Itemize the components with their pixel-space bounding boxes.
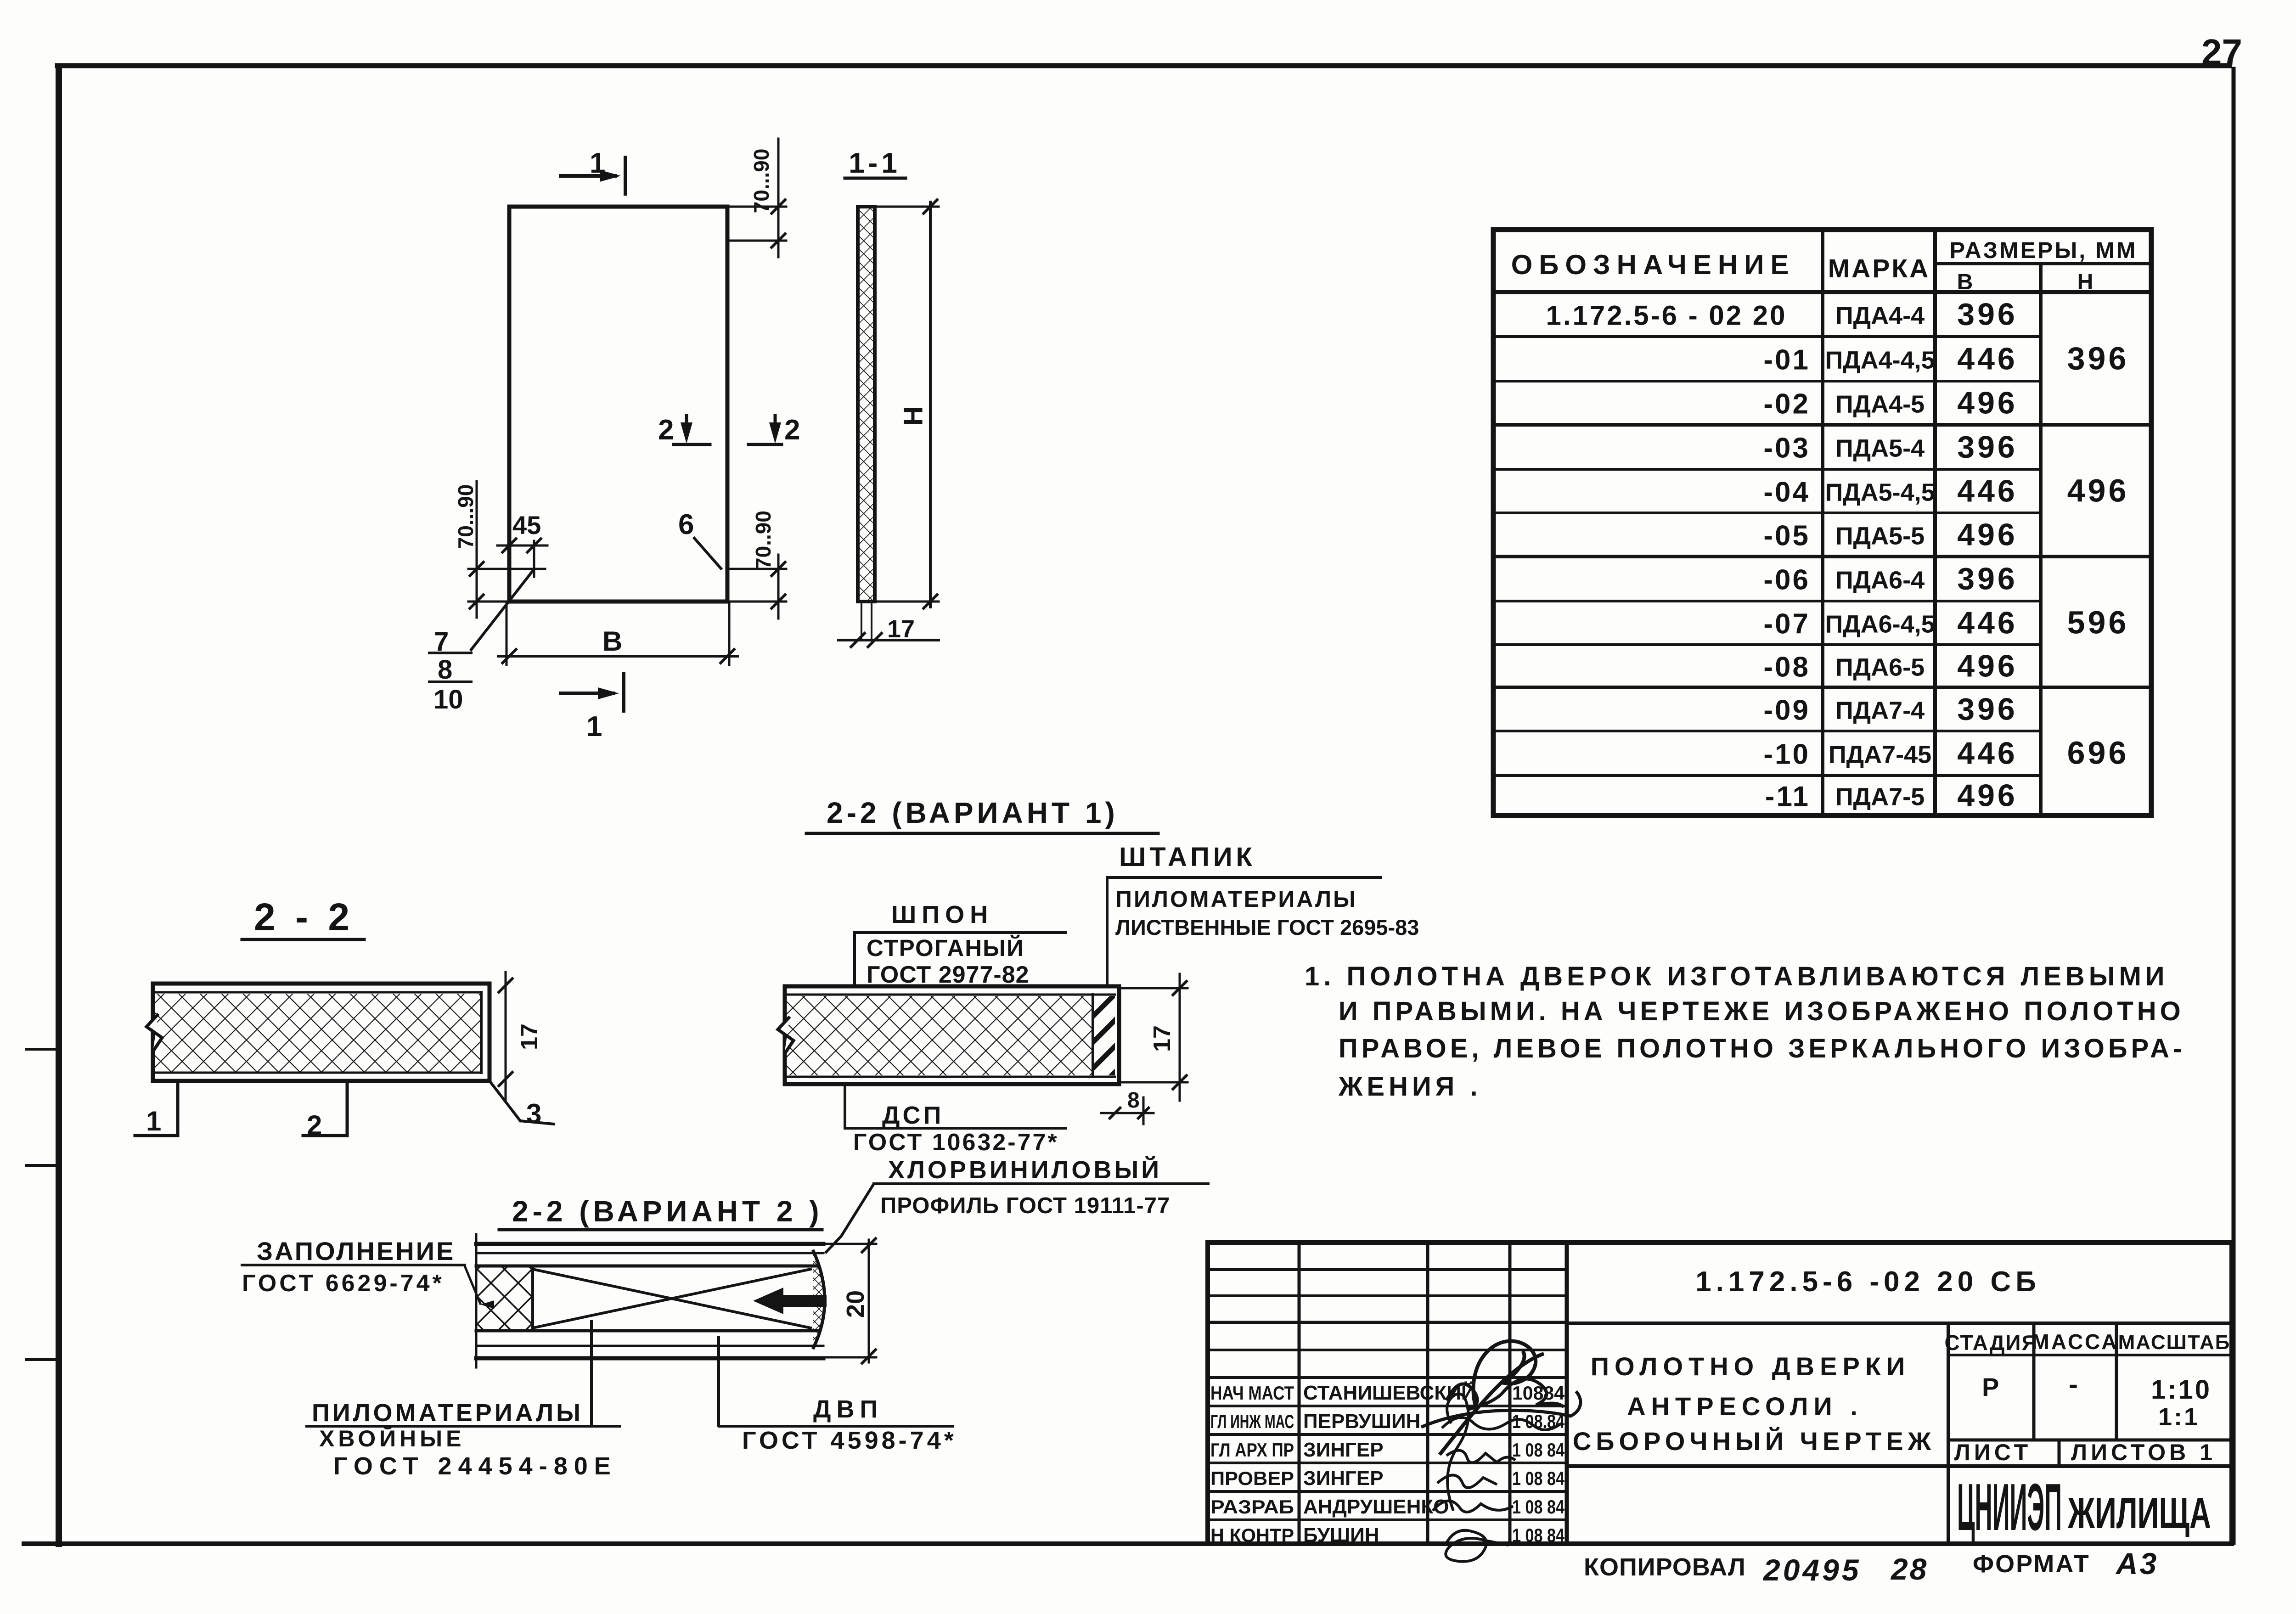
svg-text:ЖИЛИЩА: ЖИЛИЩА: [2067, 1489, 2211, 1538]
section 1-1 strip: [858, 207, 875, 602]
svg-text:НАЧ МАСТ: НАЧ МАСТ: [1210, 1382, 1294, 1404]
svg-text:70..90: 70..90: [751, 511, 775, 569]
svg-text:ШТАПИК: ШТАПИК: [1119, 842, 1256, 872]
svg-text:446: 446: [1957, 342, 2017, 377]
tb values bottom: [1948, 1439, 2232, 1442]
tb vertical main divider: [1565, 1243, 1569, 1544]
svg-text:-07: -07: [1763, 608, 1810, 640]
svg-text:ПИЛОМАТЕРИАЛЫ: ПИЛОМАТЕРИАЛЫ: [312, 1399, 583, 1427]
svg-text:ПДА6-4: ПДА6-4: [1835, 567, 1925, 594]
svg-text:1: 1: [146, 1106, 161, 1136]
svg-text:17: 17: [1149, 1025, 1176, 1052]
svg-text:1 08 84: 1 08 84: [1512, 1496, 1565, 1518]
bar 2-2 inner bottom line: [153, 1072, 481, 1074]
variant1 inner bottom line: [785, 1076, 1115, 1078]
variant2 fill block hatch: [476, 1266, 533, 1331]
svg-text:1 08 84: 1 08 84: [1512, 1524, 1565, 1546]
svg-text:10884: 10884: [1512, 1382, 1565, 1404]
svg-text:РАЗРАБ: РАЗРАБ: [1210, 1496, 1294, 1518]
tb doc cell bottom: [1567, 1322, 2232, 1325]
svg-text:ГОСТ 10632-77*: ГОСТ 10632-77*: [853, 1129, 1059, 1156]
svg-text:ПДА7-4: ПДА7-4: [1835, 697, 1925, 725]
tb left row line: [1208, 1294, 1567, 1297]
variant1 inner top line: [785, 994, 1115, 996]
svg-text:ПЕРВУШИН: ПЕРВУШИН: [1303, 1410, 1420, 1433]
svg-text:28: 28: [1890, 1552, 1928, 1586]
svg-text:10: 10: [433, 685, 463, 714]
svg-text:-02: -02: [1763, 388, 1810, 420]
svg-text:В: В: [1957, 270, 1973, 294]
tb signature row line: [1208, 1462, 1567, 1464]
title block outer: [1208, 1243, 2232, 1544]
fold tick 1: [26, 1048, 57, 1051]
svg-text:-10: -10: [1763, 739, 1810, 770]
svg-text:496: 496: [1957, 386, 2017, 421]
svg-text:ПДА7-45: ПДА7-45: [1829, 741, 1931, 769]
tb header underline: [1948, 1354, 2232, 1356]
tb left row line: [1208, 1268, 1567, 1271]
svg-text:596: 596: [2067, 605, 2129, 641]
svg-text:А3: А3: [2115, 1547, 2158, 1580]
svg-text:ГОСТ 24454-80Е: ГОСТ 24454-80Е: [333, 1452, 617, 1480]
svg-text:2: 2: [658, 414, 674, 446]
svg-text:ХЛОРВИНИЛОВЫЙ: ХЛОРВИНИЛОВЫЙ: [888, 1156, 1162, 1184]
svg-text:ШПОН: ШПОН: [891, 901, 993, 928]
svg-text:496: 496: [1957, 517, 2017, 552]
leader to hinge: [471, 570, 533, 650]
variant2 top skin lines: [476, 1242, 823, 1246]
signature scribbles: [1440, 1354, 1544, 1455]
svg-text:МАСШТАБ: МАСШТАБ: [2118, 1331, 2231, 1354]
svg-text:1.172.5-6 -02 20 СБ: 1.172.5-6 -02 20 СБ: [1695, 1266, 2041, 1298]
page frame bottom border: [24, 1541, 2232, 1546]
strip lower extension: [861, 602, 862, 639]
svg-text:ПРАВОЕ, ЛЕВОЕ ПОЛОТНО ЗЕРК: ПРАВОЕ, ЛЕВОЕ ПОЛОТНО ЗЕРКАЛЬНОГО ИЗОБРА…: [1339, 1034, 2185, 1063]
tb vertical listov divider: [2058, 1440, 2061, 1466]
svg-text:Н: Н: [898, 406, 928, 426]
svg-text:ПДА4-5: ПДА4-5: [1835, 391, 1925, 418]
tb vertical stadia left: [1947, 1323, 1950, 1544]
svg-text:ПДА5-4: ПДА5-4: [1835, 435, 1925, 462]
svg-text:1-1: 1-1: [849, 147, 901, 179]
tb left row line: [1208, 1349, 1567, 1351]
variant1 left break: [778, 1017, 793, 1054]
fold tick 2: [26, 1164, 57, 1167]
table group row line: [1493, 423, 2151, 427]
variant2 bottom skin lines: [476, 1329, 817, 1333]
svg-text:ДСП: ДСП: [882, 1102, 944, 1129]
svg-text:МАРКА: МАРКА: [1828, 254, 1930, 283]
svg-text:ПДА6-4,5: ПДА6-4,5: [1825, 611, 1935, 638]
svg-text:ГОСТ 6629-74*: ГОСТ 6629-74*: [242, 1270, 445, 1297]
dim 70...90 top right: [727, 206, 786, 208]
dim B: [506, 604, 508, 665]
table row line: [1493, 730, 2041, 732]
svg-text:1.172.5-6 - 02 20: 1.172.5-6 - 02 20: [1546, 300, 1787, 331]
svg-text:2 - 2: 2 - 2: [254, 895, 354, 939]
svg-text:8: 8: [1127, 1088, 1140, 1113]
svg-text:Н КОНТР: Н КОНТР: [1210, 1524, 1294, 1546]
svg-text:ПДА5-4,5: ПДА5-4,5: [1825, 479, 1935, 506]
svg-text:1. ПОЛОТНА ДВЕРОК ИЗГОТАВЛИВ: 1. ПОЛОТНА ДВЕРОК ИЗГОТАВЛИВАЮТСЯ ЛЕВЫМИ: [1305, 962, 2169, 991]
tb vertical massa left: [2032, 1323, 2036, 1440]
svg-text:ЛИСТОВ 1: ЛИСТОВ 1: [2071, 1440, 2216, 1465]
variant2 leader to dvp: [717, 1337, 720, 1425]
dim 17 bar 2-2: [505, 972, 507, 1100]
svg-text:2-2 (ВАРИАНТ 1): 2-2 (ВАРИАНТ 1): [827, 796, 1119, 829]
tb signature row line: [1208, 1376, 1567, 1379]
svg-text:СТАДИЯ: СТАДИЯ: [1944, 1331, 2037, 1355]
svg-text:ЗАПОЛНЕНИЕ: ЗАПОЛНЕНИЕ: [257, 1237, 455, 1265]
variant2 leader to pilomaterialy: [590, 1322, 593, 1425]
variant2 arrow: [753, 1288, 827, 1314]
svg-text:396: 396: [1957, 692, 2017, 727]
table header razmery underline: [1935, 262, 2151, 265]
svg-text:ПРОВЕР: ПРОВЕР: [1210, 1468, 1294, 1489]
panel outline: [509, 207, 727, 602]
tb signature row line: [1208, 1490, 1567, 1493]
bar 2-2 core hatch: [155, 994, 480, 1072]
page frame left border: [56, 68, 62, 1544]
svg-text:ПДА4-4: ПДА4-4: [1835, 302, 1925, 330]
svg-text:70...90: 70...90: [749, 149, 773, 214]
hinge point cross: [526, 568, 542, 570]
dim 20 variant2: [868, 1240, 870, 1362]
svg-text:ЦНИИЭП: ЦНИИЭП: [1957, 1470, 2062, 1544]
svg-text:446: 446: [1957, 474, 2017, 509]
svg-text:ФОРМАТ: ФОРМАТ: [1973, 1550, 2090, 1578]
svg-text:2-2 (ВАРИАНТ 2 ): 2-2 (ВАРИАНТ 2 ): [512, 1195, 823, 1228]
tb left heavy line: [1208, 1321, 1567, 1324]
table row line: [1493, 468, 2041, 471]
svg-text:ЗИНГЕР: ЗИНГЕР: [1303, 1467, 1384, 1490]
svg-text:2: 2: [784, 414, 800, 446]
table row line: [1493, 600, 2041, 602]
tb signature row line: [1208, 1518, 1567, 1521]
svg-text:1 08 84: 1 08 84: [1512, 1468, 1565, 1489]
variant2 right cap: [813, 1250, 825, 1349]
svg-text:1:1: 1:1: [2158, 1403, 2200, 1431]
table header bottom: [1493, 290, 2151, 294]
table row line: [1493, 380, 2041, 382]
svg-text:1 08 84: 1 08 84: [1512, 1439, 1565, 1461]
tb vertical col b: [1426, 1243, 1429, 1544]
svg-text:РАЗМЕРЫ, ММ: РАЗМЕРЫ, ММ: [1950, 237, 2138, 263]
page frame top border: [57, 63, 2229, 68]
variant1 shtapik hatch: [1093, 996, 1115, 1075]
dim 17 strip: [838, 639, 939, 641]
svg-text:446: 446: [1957, 606, 2017, 641]
callout dsp: [844, 1084, 846, 1128]
svg-text:446: 446: [1957, 736, 2017, 771]
svg-text:45: 45: [512, 511, 541, 540]
svg-text:ЗИНГЕР: ЗИНГЕР: [1303, 1439, 1384, 1461]
svg-text:396: 396: [1957, 430, 2017, 465]
section mark 2 right: [748, 443, 782, 446]
svg-text:396: 396: [2067, 341, 2129, 377]
svg-text:496: 496: [1957, 649, 2017, 684]
svg-text:АНТРЕСОЛИ .: АНТРЕСОЛИ .: [1627, 1392, 1863, 1421]
svg-text:-: -: [2069, 1369, 2078, 1400]
fold tick 3: [26, 1358, 57, 1361]
svg-text:ЛИСТ: ЛИСТ: [1954, 1440, 2032, 1465]
variant1 bar outline: [785, 986, 1119, 1084]
svg-text:17: 17: [887, 615, 915, 643]
svg-text:-04: -04: [1763, 477, 1810, 508]
svg-text:27: 27: [2201, 32, 2242, 73]
svg-text:-05: -05: [1763, 520, 1810, 552]
svg-text:Р: Р: [1982, 1372, 1999, 1401]
variant1 core hatch: [787, 996, 1092, 1075]
dim 17 variant1: [1179, 974, 1181, 1101]
page frame right border: [2232, 69, 2236, 1543]
svg-text:696: 696: [2067, 735, 2129, 771]
svg-text:ГЛ ИНЖ МАС: ГЛ ИНЖ МАС: [1210, 1411, 1294, 1432]
table row line: [1493, 335, 2041, 338]
table outer frame: [1493, 230, 2151, 815]
variant2 X brace: [533, 1269, 810, 1328]
svg-text:20: 20: [842, 1290, 869, 1318]
svg-text:-06: -06: [1763, 564, 1810, 596]
svg-text:В: В: [602, 626, 622, 657]
svg-text:СБОРОЧНЫЙ ЧЕРТЕЖ: СБОРОЧНЫЙ ЧЕРТЕЖ: [1573, 1427, 1936, 1456]
svg-text:ХВОЙНЫЕ: ХВОЙНЫЕ: [319, 1425, 465, 1451]
svg-text:ОБОЗНАЧЕНИЕ: ОБОЗНАЧЕНИЕ: [1511, 249, 1795, 280]
svg-text:И ПРАВЫМИ. НА ЧЕРТЕЖЕ ИЗОБР: И ПРАВЫМИ. НА ЧЕРТЕЖЕ ИЗОБРАЖЕНО ПОЛОТНО: [1339, 996, 2184, 1026]
svg-text:СТРОГАНЫЙ: СТРОГАНЫЙ: [867, 934, 1024, 961]
svg-text:ПДА6-5: ПДА6-5: [1835, 654, 1925, 681]
svg-text:1: 1: [586, 711, 602, 742]
svg-text:-08: -08: [1763, 652, 1810, 683]
table row line: [1493, 774, 2041, 777]
tb signature row line: [1208, 1433, 1567, 1436]
svg-text:ДВП: ДВП: [813, 1395, 883, 1423]
svg-text:-03: -03: [1763, 433, 1810, 464]
tb vertical col a: [1298, 1243, 1301, 1544]
table row line: [1493, 643, 2041, 646]
svg-text:ЛИСТВЕННЫЕ ГОСТ 2695-83: ЛИСТВЕННЫЕ ГОСТ 2695-83: [1115, 915, 1419, 939]
bar 2-2 left break: [146, 1014, 162, 1052]
svg-text:ПДА5-5: ПДА5-5: [1835, 523, 1925, 550]
svg-text:6: 6: [678, 509, 694, 540]
svg-text:70...90: 70...90: [454, 484, 478, 549]
svg-text:-09: -09: [1763, 695, 1810, 726]
svg-text:ГОСТ 4598-74*: ГОСТ 4598-74*: [742, 1427, 957, 1454]
svg-text:3: 3: [526, 1098, 541, 1129]
svg-text:1:10: 1:10: [2151, 1375, 2212, 1405]
svg-text:КОПИРОВАЛ: КОПИРОВАЛ: [1584, 1553, 1746, 1581]
section mark 1 top: [561, 174, 615, 178]
svg-text:ЖЕНИЯ .: ЖЕНИЯ .: [1338, 1072, 1482, 1102]
svg-text:ГЛ АРХ ПР: ГЛ АРХ ПР: [1210, 1439, 1294, 1461]
dim H: [929, 202, 932, 607]
svg-text:ПИЛОМАТЕРИАЛЫ: ПИЛОМАТЕРИАЛЫ: [1115, 886, 1357, 912]
table row line: [1493, 512, 2041, 514]
tb vertical col c: [1508, 1243, 1512, 1544]
svg-text:396: 396: [1957, 562, 2017, 596]
svg-text:АНДРУШЕНКО: АНДРУШЕНКО: [1303, 1496, 1449, 1518]
svg-text:БУШИН: БУШИН: [1303, 1524, 1379, 1547]
svg-text:17: 17: [516, 1024, 543, 1050]
bar 2-2 edge strip line: [480, 992, 483, 1073]
table col line B: [1933, 230, 1937, 815]
svg-text:ПДА7-5: ПДА7-5: [1835, 783, 1925, 811]
bar 2-2 inner top line: [153, 991, 481, 994]
svg-text:496: 496: [2067, 473, 2129, 509]
table col line marka: [1821, 230, 1824, 815]
svg-text:1: 1: [590, 147, 605, 179]
tb list row bottom: [1567, 1464, 2232, 1468]
bar 2-2 outline: [153, 984, 490, 1081]
svg-text:ПРОФИЛЬ ГОСТ 19111-77: ПРОФИЛЬ ГОСТ 19111-77: [880, 1193, 1170, 1218]
svg-text:ПОЛОТНО ДВЕРКИ: ПОЛОТНО ДВЕРКИ: [1591, 1352, 1911, 1381]
svg-text:-11: -11: [1765, 781, 1810, 813]
svg-text:8: 8: [438, 655, 452, 685]
section mark 1 bottom: [561, 692, 613, 695]
tb signature row line: [1208, 1405, 1567, 1407]
tb vertical masshtab left: [2115, 1323, 2118, 1440]
svg-text:496: 496: [1957, 778, 2017, 813]
svg-text:-01: -01: [1763, 344, 1810, 376]
svg-text:396: 396: [1957, 297, 2017, 332]
table group row line: [1493, 686, 2151, 689]
svg-text:ГОСТ 2977-82: ГОСТ 2977-82: [867, 962, 1030, 988]
table group row line: [1493, 555, 2151, 558]
table col line H: [2039, 264, 2043, 815]
svg-text:Н: Н: [2077, 270, 2093, 294]
variant2 left extension line: [475, 1234, 478, 1367]
svg-text:20495: 20495: [1762, 1553, 1862, 1587]
svg-text:ПДА4-4,5: ПДА4-4,5: [1825, 347, 1935, 374]
svg-text:МАССА: МАССА: [2032, 1330, 2119, 1354]
